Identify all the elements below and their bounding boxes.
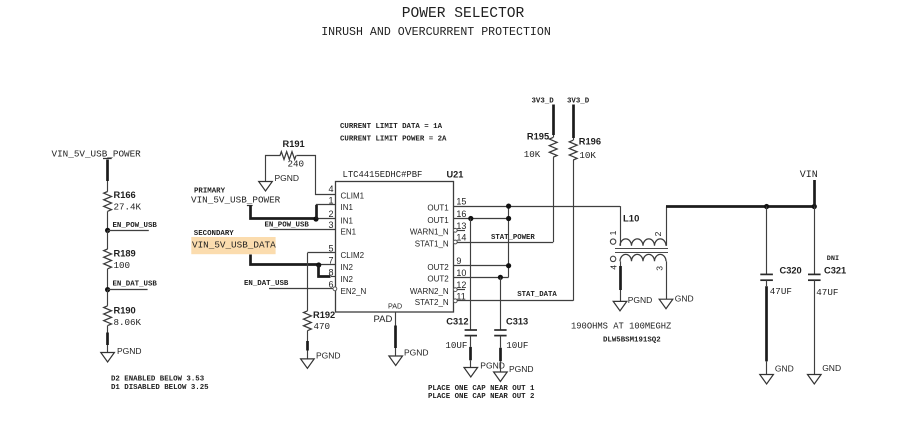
svg-text:13: 13	[456, 221, 466, 231]
svg-text:C312: C312	[446, 317, 468, 327]
svg-text:EN_DAT_USB: EN_DAT_USB	[113, 281, 158, 289]
ground GND	[808, 375, 822, 385]
svg-text:PGND: PGND	[404, 348, 429, 358]
svg-text:DNI: DNI	[827, 255, 839, 263]
svg-text:4: 4	[608, 265, 618, 270]
resistor R196	[569, 140, 577, 160]
wire OUT2 pin 9	[454, 265, 509, 267]
node C320 tap	[764, 204, 769, 209]
resistor R190	[104, 306, 112, 326]
svg-text:190OHMS AT 100MEGHZ: 190OHMS AT 100MEGHZ	[571, 321, 671, 331]
svg-text:POWER SELECTOR: POWER SELECTOR	[402, 6, 525, 22]
svg-text:1: 1	[328, 195, 333, 205]
svg-text:VIN_5V_USB_DATA: VIN_5V_USB_DATA	[192, 239, 276, 250]
svg-text:IN2: IN2	[341, 263, 354, 272]
ground PGND	[494, 372, 508, 382]
svg-text:10: 10	[456, 268, 466, 278]
svg-text:STAT_DATA: STAT_DATA	[517, 291, 557, 299]
svg-text:STAT2_N: STAT2_N	[415, 298, 449, 307]
svg-text:14: 14	[456, 233, 466, 243]
ground GND	[659, 299, 673, 309]
svg-text:PAD: PAD	[374, 314, 393, 325]
svg-text:IN1: IN1	[341, 217, 354, 226]
capacitor C312	[465, 329, 477, 331]
svg-text:3V3_D: 3V3_D	[532, 97, 555, 105]
wire	[251, 206, 317, 219]
svg-text:CLIM1: CLIM1	[341, 191, 365, 200]
svg-text:PAD: PAD	[388, 302, 402, 311]
svg-text:4: 4	[328, 184, 333, 194]
wire	[107, 230, 109, 249]
resistor R189	[104, 249, 112, 269]
node IN2	[316, 262, 321, 267]
ground PGND	[259, 182, 273, 192]
svg-text:LTC4415EDHC#PBF: LTC4415EDHC#PBF	[343, 170, 423, 180]
svg-text:EN2_N: EN2_N	[341, 287, 367, 296]
svg-text:PGND: PGND	[316, 351, 341, 361]
node junctions	[468, 216, 473, 221]
wire	[470, 336, 472, 347]
svg-text:GND: GND	[822, 363, 841, 373]
svg-text:240: 240	[288, 158, 305, 169]
wire VIN rail	[666, 205, 814, 208]
svg-text:L10: L10	[623, 214, 639, 225]
wire pin 1	[315, 205, 318, 219]
svg-text:2: 2	[653, 231, 663, 236]
ground PGND	[101, 353, 115, 363]
svg-text:GND: GND	[675, 293, 694, 303]
svg-text:47UF: 47UF	[816, 287, 838, 298]
pin 13 stub WARN1_N	[453, 228, 457, 232]
svg-text:R196: R196	[579, 137, 601, 147]
capacitor C321	[814, 207, 816, 275]
wire	[107, 326, 109, 333]
wire to pin 4	[297, 156, 337, 195]
svg-text:11: 11	[456, 291, 465, 301]
wire OUT2 pin 10	[454, 277, 509, 279]
svg-text:470: 470	[314, 321, 331, 332]
svg-text:IN2: IN2	[341, 275, 354, 284]
svg-text:OUT2: OUT2	[427, 263, 449, 272]
svg-text:100: 100	[114, 260, 131, 271]
svg-text:8.06K: 8.06K	[114, 317, 142, 328]
svg-text:VIN_5V_USB_POWER: VIN_5V_USB_POWER	[52, 148, 142, 159]
svg-text:CURRENT LIMIT DATA = 1A: CURRENT LIMIT DATA = 1A	[340, 123, 443, 131]
svg-text:OUT2: OUT2	[427, 275, 449, 284]
net STAT_POWER pin 14	[453, 240, 457, 244]
highlight	[191, 237, 275, 254]
node IN1	[313, 216, 318, 221]
svg-text:9: 9	[456, 256, 461, 266]
svg-text:SECONDARY: SECONDARY	[194, 230, 234, 238]
wire	[766, 280, 768, 286]
wire	[266, 156, 281, 182]
svg-text:VIN_5V_USB_POWER: VIN_5V_USB_POWER	[191, 194, 281, 205]
svg-text:3V3_D: 3V3_D	[567, 97, 590, 105]
wire to C312	[470, 219, 472, 331]
wire	[107, 269, 109, 290]
svg-text:3: 3	[328, 220, 333, 230]
svg-text:3: 3	[654, 266, 664, 271]
svg-text:PLACE ONE CAP NEAR OUT 2: PLACE ONE CAP NEAR OUT 2	[428, 393, 534, 401]
wire OUT1 pin 16	[454, 218, 509, 220]
capacitor C320	[766, 207, 768, 275]
svg-text:C313: C313	[506, 317, 528, 327]
svg-text:PGND: PGND	[275, 173, 300, 183]
wire pin 4	[620, 261, 622, 266]
svg-text:47UF: 47UF	[770, 286, 792, 297]
wire	[107, 211, 109, 230]
svg-text:EN_DAT_USB: EN_DAT_USB	[244, 280, 289, 288]
svg-text:INRUSH AND OVERCURRENT PROTECT: INRUSH AND OVERCURRENT PROTECTION	[321, 26, 551, 39]
svg-text:R190: R190	[114, 305, 136, 315]
svg-text:27.4K: 27.4K	[114, 202, 142, 213]
svg-text:R191: R191	[283, 139, 305, 149]
svg-text:2: 2	[328, 209, 333, 219]
wire OUT common	[508, 206, 510, 277]
svg-text:OUT1: OUT1	[427, 203, 449, 212]
node EN_DAT_USB	[105, 287, 110, 292]
wire	[307, 331, 309, 341]
wire PAD	[395, 312, 397, 326]
pin 12 stub WARN2_N	[453, 288, 457, 292]
svg-text:8: 8	[328, 268, 333, 278]
node EN_POW_USB	[105, 228, 110, 233]
svg-text:1: 1	[608, 230, 618, 235]
IC U21 LTC4415EDHC#PBF body	[336, 182, 454, 313]
pin 6 bubble	[333, 287, 337, 291]
net STAT_DATA pin 11	[453, 299, 457, 303]
svg-text:EN1: EN1	[341, 228, 357, 237]
svg-text:VIN: VIN	[800, 170, 818, 181]
svg-text:D2 ENABLED BELOW 3.53: D2 ENABLED BELOW 3.53	[111, 375, 205, 383]
resistor R192	[304, 311, 312, 331]
svg-text:CURRENT LIMIT POWER = 2A: CURRENT LIMIT POWER = 2A	[340, 135, 447, 143]
wire CLIM2	[307, 252, 336, 254]
ground PGND	[464, 368, 478, 378]
svg-text:CLIM2: CLIM2	[341, 251, 365, 260]
svg-text:IN1: IN1	[341, 203, 354, 212]
wire pin 8	[319, 265, 331, 277]
wire	[814, 280, 816, 374]
wire pin 3	[666, 261, 668, 299]
svg-text:PGND: PGND	[480, 361, 505, 371]
svg-text:5: 5	[328, 244, 333, 254]
phase dots	[610, 239, 615, 244]
winding 2	[620, 254, 666, 261]
core	[615, 248, 668, 250]
svg-text:10K: 10K	[579, 150, 596, 161]
svg-text:EN_POW_USB: EN_POW_USB	[113, 222, 158, 230]
capacitor C313	[494, 329, 506, 331]
ground PGND	[613, 301, 627, 311]
svg-text:16: 16	[456, 209, 466, 219]
svg-text:WARN2_N: WARN2_N	[410, 287, 449, 296]
svg-text:D1 DISABLED BELOW 3.25: D1 DISABLED BELOW 3.25	[111, 384, 209, 392]
svg-text:PGND: PGND	[509, 364, 534, 374]
wire	[500, 336, 502, 348]
svg-text:U21: U21	[447, 170, 464, 180]
svg-text:STAT_POWER: STAT_POWER	[491, 234, 535, 242]
svg-text:WARN1_N: WARN1_N	[410, 228, 449, 237]
ground GND	[760, 375, 774, 385]
svg-text:C320: C320	[780, 266, 802, 276]
ground PGND	[389, 356, 403, 366]
resistor R166	[104, 192, 112, 212]
svg-text:12: 12	[456, 280, 466, 290]
svg-text:DLW5BSM191SQ2: DLW5BSM191SQ2	[603, 337, 661, 345]
svg-text:7: 7	[328, 255, 333, 265]
wire	[107, 290, 109, 306]
svg-text:R192: R192	[313, 310, 335, 320]
svg-text:10UF: 10UF	[506, 340, 528, 351]
svg-text:C321: C321	[824, 266, 846, 276]
wire	[251, 255, 319, 265]
svg-text:EN_POW_USB: EN_POW_USB	[265, 222, 310, 230]
svg-text:PGND: PGND	[117, 346, 142, 356]
svg-text:R195: R195	[527, 132, 549, 142]
svg-text:STAT1_N: STAT1_N	[415, 239, 449, 248]
svg-text:R189: R189	[114, 249, 136, 259]
svg-text:15: 15	[456, 197, 466, 207]
svg-text:R166: R166	[114, 190, 136, 200]
svg-text:10UF: 10UF	[445, 340, 467, 351]
ground PGND	[301, 359, 315, 369]
wire	[106, 160, 109, 182]
svg-text:PLACE ONE CAP NEAR OUT 1: PLACE ONE CAP NEAR OUT 1	[428, 385, 535, 393]
wire OUT1 pin 15	[454, 206, 621, 208]
wire to C313	[500, 277, 502, 330]
resistor R195	[549, 137, 557, 157]
svg-text:10K: 10K	[524, 149, 541, 160]
svg-text:GND: GND	[775, 363, 794, 373]
node VIN drop	[812, 204, 817, 209]
svg-text:PGND: PGND	[628, 295, 653, 305]
svg-text:OUT1: OUT1	[427, 216, 449, 225]
